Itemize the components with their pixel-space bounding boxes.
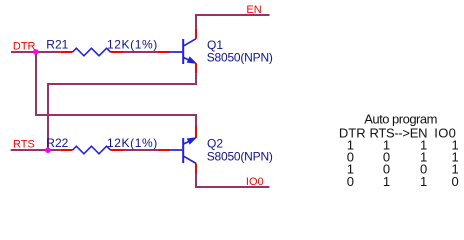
svg-text:12K(1%): 12K(1%) [107,38,158,52]
svg-text:R22: R22 [46,136,68,150]
svg-text:EN: EN [246,4,261,16]
svg-text:IO0: IO0 [246,176,264,188]
svg-text:RTS: RTS [13,138,35,150]
svg-text:R21: R21 [46,38,68,52]
svg-text:1: 1 [420,174,427,189]
svg-text:0: 0 [347,174,354,189]
svg-text:Auto program: Auto program [364,112,437,127]
svg-text:Q2: Q2 [207,136,223,150]
svg-text:DTR: DTR [13,40,36,52]
svg-text:0: 0 [452,174,459,189]
svg-text:1: 1 [383,174,390,189]
svg-text:S8050(NPN): S8050(NPN) [207,51,273,65]
svg-text:12K(1%): 12K(1%) [107,136,158,150]
svg-text:S8050(NPN): S8050(NPN) [207,150,273,164]
svg-text:RTS-->EN: RTS-->EN [370,126,428,141]
